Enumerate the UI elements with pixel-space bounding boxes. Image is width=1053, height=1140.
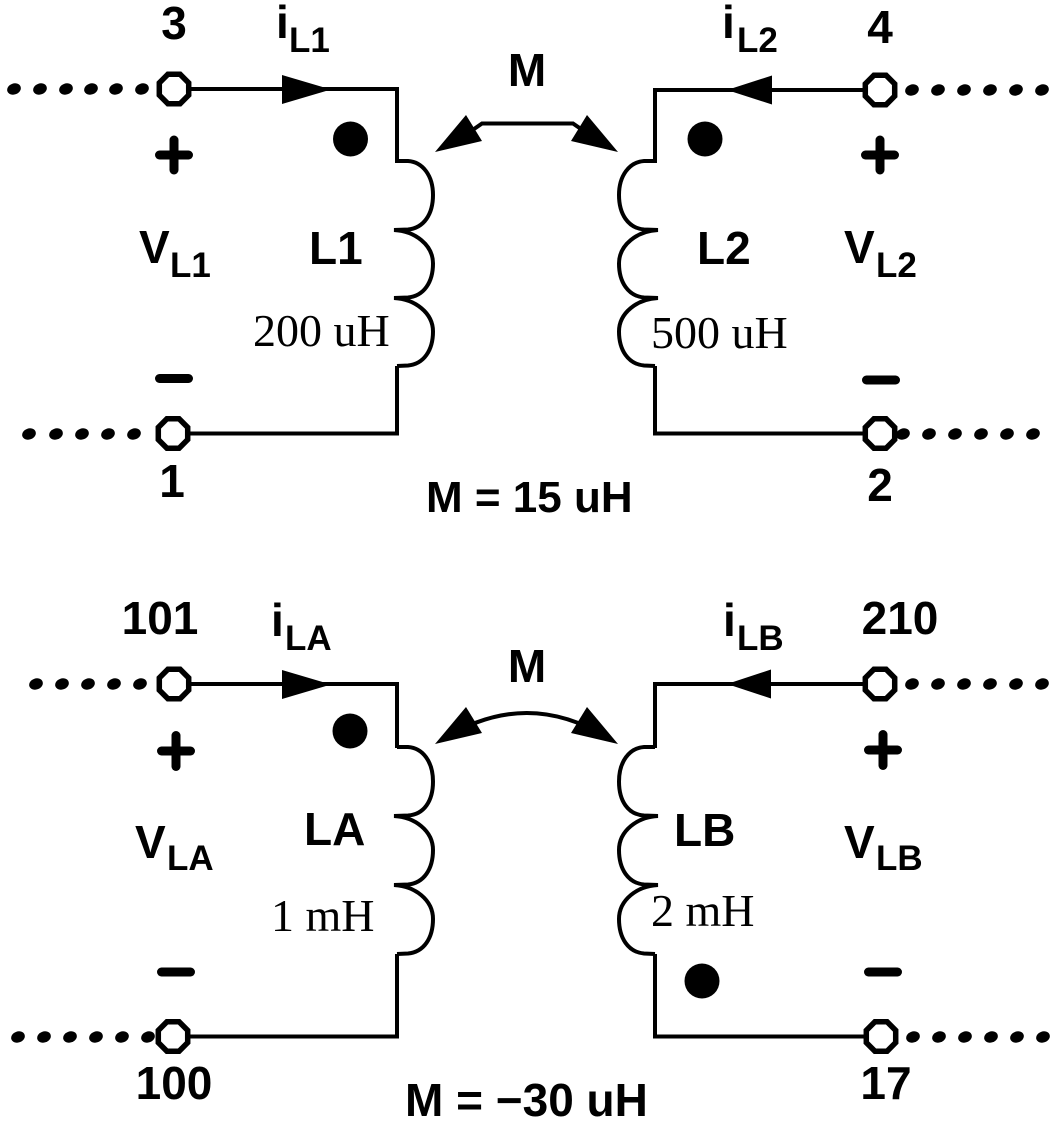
- wire L1 bottom to node 1: [190, 366, 397, 434]
- node 3 terminal: [159, 74, 188, 103]
- node 101 terminal: [159, 669, 188, 698]
- wire node 101 to LA top: [191, 684, 397, 748]
- current arrow iL1: [282, 75, 331, 104]
- svg-text:M: M: [508, 44, 546, 96]
- svg-text:2 mH: 2 mH: [651, 885, 755, 936]
- svg-text:101: 101: [122, 592, 199, 644]
- svg-text:L1: L1: [309, 222, 363, 274]
- svg-text:V: V: [139, 221, 170, 273]
- node 4 terminal: [865, 75, 894, 104]
- plus sign VLB: [869, 735, 898, 766]
- svg-text:100: 100: [136, 1057, 213, 1109]
- polarity dot L2: [688, 122, 723, 157]
- svg-text:L2: L2: [697, 222, 751, 274]
- polarity dot L1: [333, 122, 368, 157]
- wire: dotted lead right of node 4: [904, 82, 1051, 97]
- wire: dotted lead right of node 2: [895, 426, 1042, 441]
- svg-text:M: M: [508, 640, 546, 692]
- node 2 terminal: [865, 419, 894, 448]
- svg-text:i: i: [723, 594, 736, 646]
- svg-text:1 mH: 1 mH: [271, 890, 375, 941]
- svg-text:LA: LA: [167, 839, 214, 878]
- plus sign VL1: [160, 140, 189, 170]
- svg-text:LA: LA: [304, 803, 365, 855]
- svg-text:V: V: [844, 221, 875, 273]
- wire: dotted lead left of node 1: [21, 426, 143, 441]
- svg-text:V: V: [844, 816, 875, 868]
- inductor LA: [394, 747, 433, 954]
- svg-text:4: 4: [867, 1, 893, 53]
- wire LB bottom to node 17: [655, 954, 866, 1037]
- svg-text:3: 3: [161, 0, 187, 49]
- svg-text:LB: LB: [674, 804, 735, 856]
- node 210 terminal: [865, 669, 894, 698]
- svg-text:i: i: [271, 594, 284, 646]
- wire: dotted lead left of node 100: [10, 1029, 157, 1044]
- minus sign VLA: [162, 968, 191, 977]
- current arrow iLA: [282, 670, 331, 699]
- svg-text:1: 1: [159, 455, 185, 507]
- inductor LB: [619, 747, 658, 954]
- svg-text:210: 210: [862, 592, 939, 644]
- svg-text:L2: L2: [737, 21, 778, 60]
- wire: dotted lead left of node 101: [28, 676, 149, 691]
- svg-text:LA: LA: [285, 619, 332, 658]
- minus sign VLB: [869, 968, 898, 977]
- plus sign VL2: [866, 140, 895, 170]
- wire L2 bottom to node 2: [655, 366, 866, 434]
- wire: dotted lead right of node 210: [904, 676, 1051, 691]
- current arrow iLB: [727, 670, 771, 699]
- minus sign VL2: [867, 376, 896, 385]
- svg-text:L1: L1: [170, 246, 211, 285]
- svg-text:V: V: [135, 816, 166, 868]
- plus sign VLA: [162, 736, 191, 767]
- svg-text:L1: L1: [289, 21, 330, 60]
- current arrow iL2: [727, 76, 772, 105]
- coupling arrow M bottom: [445, 713, 608, 738]
- svg-text:LB: LB: [876, 839, 923, 878]
- svg-text:i: i: [722, 0, 735, 48]
- inductor L1: [394, 161, 433, 366]
- node 100 terminal: [158, 1022, 187, 1051]
- svg-text:i: i: [276, 0, 289, 48]
- wire LA bottom to node 100: [190, 954, 397, 1037]
- node 1 terminal: [158, 419, 187, 448]
- svg-text:200 uH: 200 uH: [253, 305, 390, 356]
- polarity dot LB: [685, 964, 720, 999]
- svg-text:17: 17: [860, 1057, 911, 1109]
- svg-text:L2: L2: [876, 246, 917, 285]
- inductor L2: [619, 161, 658, 366]
- minus sign VL1: [160, 374, 189, 383]
- node 17 terminal: [866, 1022, 895, 1051]
- svg-text:M = −30 uH: M = −30 uH: [405, 1074, 648, 1126]
- polarity dot LA: [333, 714, 368, 749]
- wire node 4 to L2 top: [655, 90, 863, 163]
- svg-text:LB: LB: [737, 619, 784, 658]
- coupling arrow M top: [474, 124, 581, 130]
- svg-text:M = 15 uH: M = 15 uH: [426, 473, 633, 522]
- wire: dotted lead right of node 17: [905, 1029, 1052, 1044]
- wire node 210 to LB top: [655, 684, 863, 748]
- wire node 3 to L1 top: [191, 89, 397, 163]
- wire: dotted lead left of node 3: [6, 81, 151, 96]
- svg-text:2: 2: [867, 459, 893, 511]
- svg-text:500 uH: 500 uH: [651, 307, 788, 358]
